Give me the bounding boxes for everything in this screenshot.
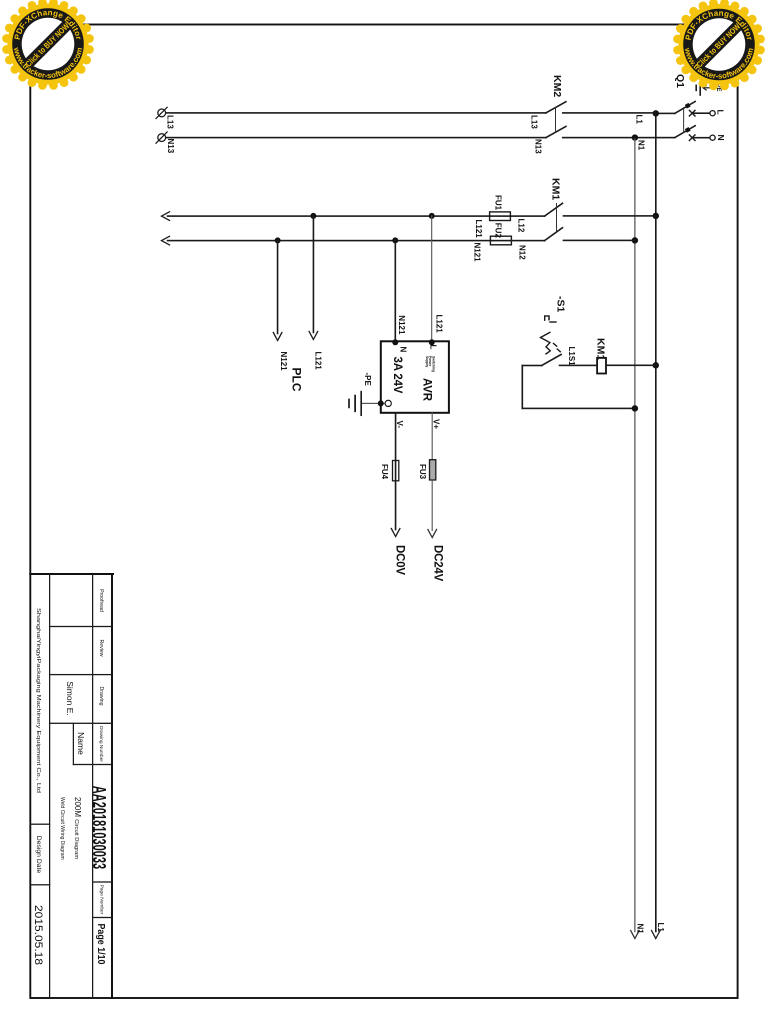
PE wire stem with arrow <box>703 86 714 90</box>
title block frame <box>30 574 113 998</box>
arrow L1 rail end <box>652 931 661 939</box>
breaker Q1 linkage <box>683 108 685 133</box>
wire L121 vertical <box>168 215 490 217</box>
arrow L121 bottom <box>162 212 170 221</box>
arrow DC0V <box>391 529 400 537</box>
node tap L121 to AVR <box>429 213 435 219</box>
contactor KM2 blade L <box>546 102 566 113</box>
contactor KM2 blade N <box>546 126 566 137</box>
wire return to N1 <box>522 407 635 409</box>
node N at AVR edge <box>392 339 398 345</box>
stamp right <box>673 0 765 90</box>
fuse FU3 <box>430 460 436 480</box>
arrow DC24V <box>428 530 437 538</box>
breaker Q1 contact cross L <box>689 110 695 116</box>
wire L13 upper <box>563 112 656 114</box>
ground PE bars <box>696 83 700 96</box>
wire L13 lower <box>166 112 546 114</box>
arrow N121 PLC <box>273 333 282 341</box>
wire N13 upper <box>563 137 635 139</box>
switch S1 blade <box>542 355 561 366</box>
fuse FU1 <box>490 212 511 221</box>
contactor KM1 linkage <box>556 204 558 232</box>
breaker Q1 pole N blade <box>675 126 695 138</box>
terminal circle-slash N13 <box>156 132 167 143</box>
wire N121 to PLC <box>277 240 279 333</box>
fuse FU2 <box>490 236 511 245</box>
fuse FU4 <box>393 461 399 481</box>
wire L12 upper <box>564 215 656 217</box>
wire N terminal to breaker contact <box>692 137 710 139</box>
node N12 tap on N1 rail <box>632 237 638 243</box>
PE terminal circle in AVR <box>385 400 391 406</box>
wire L12 to fuse <box>490 215 545 217</box>
wire S1 to elbow <box>522 365 541 367</box>
wire N13 lower <box>166 137 546 139</box>
wire L terminal to breaker contact <box>692 112 710 114</box>
breaker Q1 blade square N <box>685 127 691 133</box>
title block texts <box>32 589 109 965</box>
wire V+ out <box>431 413 433 460</box>
breaker Q1 pole L blade <box>675 102 695 114</box>
node tap L121 to PLC <box>310 213 316 219</box>
wire V- out <box>395 413 397 481</box>
node S1 return on N1 rail <box>632 405 638 411</box>
arrow N121 bottom <box>162 236 170 245</box>
wire elbow horizontal <box>521 366 523 409</box>
node tap N121 to PLC <box>275 237 281 243</box>
terminal circle L <box>710 111 715 116</box>
wire L121 to PLC <box>312 216 314 333</box>
node PE at box edge <box>378 400 384 406</box>
ground bars at AVR <box>349 392 361 416</box>
wire DC0V <box>395 481 397 530</box>
wire N1 rail <box>634 138 636 932</box>
wire Q1 N output <box>635 137 675 139</box>
node L1 junction at Q1 <box>653 110 659 116</box>
wire N12 to fuse <box>490 240 544 242</box>
wire DC24V <box>431 480 433 531</box>
arrow L121 PLC <box>309 332 318 340</box>
node tap coil KM1 on L1 rail <box>653 362 659 368</box>
power supply U1 AVR box <box>381 341 449 413</box>
node tap N121 to AVR <box>392 237 398 243</box>
wire N121 vertical <box>168 240 491 242</box>
wire coil to switch <box>560 364 598 366</box>
wire L1 rail <box>655 113 657 931</box>
wire L1 to coil <box>606 364 656 366</box>
wire N12 upper <box>564 239 635 241</box>
stamp left <box>2 0 94 90</box>
coil KM1 <box>597 358 606 374</box>
terminal circle-slash L13 <box>156 107 167 118</box>
contactor KM1 blade L <box>545 203 563 216</box>
contactor KM1 blade N <box>545 228 563 241</box>
switch S1 actuator <box>541 316 561 354</box>
terminal circle N <box>710 135 715 140</box>
breaker Q1 blade square L <box>685 103 691 109</box>
wire N121 to AVR <box>394 240 396 341</box>
node N1 junction at Q1 <box>632 134 638 140</box>
wire L121 to AVR <box>431 216 433 341</box>
breaker Q1 contact cross N <box>689 135 695 141</box>
wire PE stem <box>362 402 385 404</box>
wire Q1 L output <box>656 112 675 114</box>
node L at AVR edge <box>429 339 435 345</box>
node L12 tap on L1 rail <box>653 213 659 219</box>
contactor KM2 linkage <box>555 108 557 133</box>
arrow N1 rail end <box>631 931 640 939</box>
